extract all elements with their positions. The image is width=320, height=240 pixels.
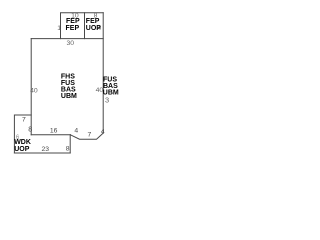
svg-text:3: 3 bbox=[105, 95, 109, 104]
svg-text:WDK: WDK bbox=[14, 139, 31, 146]
svg-text:30: 30 bbox=[67, 40, 75, 47]
svg-text:UBM: UBM bbox=[103, 89, 119, 96]
svg-text:40: 40 bbox=[30, 87, 38, 94]
svg-text:23: 23 bbox=[42, 146, 50, 153]
svg-text:UBM: UBM bbox=[61, 93, 77, 100]
svg-text:FEP: FEP bbox=[66, 25, 80, 32]
svg-text:7: 7 bbox=[88, 132, 92, 139]
svg-text:8: 8 bbox=[28, 125, 32, 134]
svg-text:8: 8 bbox=[66, 145, 70, 152]
svg-text:FEP: FEP bbox=[66, 18, 80, 25]
svg-text:16: 16 bbox=[50, 128, 58, 135]
svg-text:FEP: FEP bbox=[86, 18, 100, 25]
svg-text:7: 7 bbox=[22, 116, 26, 123]
svg-text:UOP: UOP bbox=[86, 25, 102, 32]
svg-text:4: 4 bbox=[74, 128, 78, 135]
svg-text:1: 1 bbox=[57, 25, 61, 32]
svg-text:4: 4 bbox=[101, 129, 105, 136]
svg-text:UOP: UOP bbox=[14, 146, 30, 153]
